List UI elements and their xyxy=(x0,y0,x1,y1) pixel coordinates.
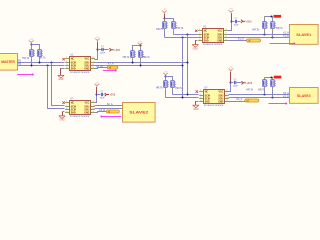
wire U2 VCC xyxy=(228,22,232,31)
resistor R4 xyxy=(245,99,259,102)
ground (U1) xyxy=(58,75,64,81)
svg-text:2: 2 xyxy=(66,105,67,107)
svg-text:GND: GND xyxy=(217,40,222,42)
wire Q1 source to U1 pin3 xyxy=(165,37,199,39)
svg-text:SOU: SOU xyxy=(218,95,223,97)
wire U1 pin4 out xyxy=(95,68,108,69)
svg-text:SHD: SHD xyxy=(205,101,210,103)
wire to C2 xyxy=(98,49,102,51)
wire U4 pin4 out xyxy=(229,101,247,103)
svg-text:PC4SV17XXXX: PC4SV17XXXX xyxy=(70,116,90,118)
svg-text:4: 4 xyxy=(200,100,201,102)
magenta line ch4 xyxy=(269,103,288,105)
opto-isolator U4 xyxy=(199,87,229,107)
svg-text:SOU: SOU xyxy=(84,65,89,67)
resistor R2 xyxy=(107,66,118,69)
svg-text:SHD: SHD xyxy=(71,112,76,114)
svg-text:8: 8 xyxy=(226,29,227,31)
svg-text:SOU: SOU xyxy=(217,34,222,36)
transistor Q5 xyxy=(29,50,35,57)
transistor Q1 xyxy=(162,22,168,29)
wire C3 to label xyxy=(104,94,105,96)
wire xyxy=(264,77,266,80)
svg-text:1: 1 xyxy=(66,57,67,59)
svg-text:HR,7k: HR,7k xyxy=(156,28,163,31)
svg-text:3: 3 xyxy=(199,36,200,38)
wire xyxy=(264,87,266,95)
svg-text:SLAVE1: SLAVE1 xyxy=(296,33,311,37)
svg-text:6: 6 xyxy=(226,36,227,38)
wire xyxy=(31,57,33,66)
wire U1 outB to bus xyxy=(95,65,183,67)
power stem C2 xyxy=(97,42,99,50)
junction xyxy=(187,94,189,96)
junction xyxy=(96,94,98,96)
transistor Q12 xyxy=(270,80,276,87)
svg-text:NC: NC xyxy=(71,102,75,104)
svg-text:1: 1 xyxy=(200,90,201,92)
wire U2 out A to SLAVE1 xyxy=(228,34,290,36)
svg-text:PC4SV17XXXX: PC4SV17XXXX xyxy=(203,44,223,46)
svg-text:GND: GND xyxy=(218,101,223,103)
hierarchical label +5V0 (ch1) xyxy=(241,20,252,24)
hierarchical sheet SLAVE3 xyxy=(290,88,319,104)
svg-text:+5V0: +5V0 xyxy=(110,94,116,97)
wire U2 out B to SLAVE1 xyxy=(228,37,290,39)
wire U2 gnd pin xyxy=(196,40,198,42)
power +5V (C3) xyxy=(94,82,99,87)
wire to C3 xyxy=(97,94,101,96)
transistor Q9 xyxy=(163,81,169,88)
ground (U3) xyxy=(59,116,65,122)
magenta line MASTER xyxy=(17,74,34,76)
junction xyxy=(272,37,274,39)
power +5V (over Q9) xyxy=(163,71,168,76)
svg-text:GND: GND xyxy=(193,47,199,50)
wire xyxy=(272,16,274,21)
svg-text:K3_B: K3_B xyxy=(283,97,289,99)
svg-text:SLAVE3: SLAVE3 xyxy=(297,94,311,98)
wire to C1 xyxy=(232,21,235,23)
wire xyxy=(272,87,274,98)
junction xyxy=(271,77,273,79)
wire xyxy=(140,46,142,51)
junction xyxy=(187,34,189,36)
transistor Q10 xyxy=(170,81,176,88)
no-connect U3 pin1 xyxy=(62,101,64,103)
svg-text:7: 7 xyxy=(226,33,227,35)
svg-text:SOU: SOU xyxy=(217,37,222,39)
svg-text:SCM: SCM xyxy=(205,98,210,100)
wire vertical to U3 pin2 xyxy=(52,63,65,106)
junction xyxy=(264,34,266,36)
wire xyxy=(132,58,134,62)
gnd stem U4 xyxy=(195,101,197,105)
svg-text:3: 3 xyxy=(66,108,67,110)
svg-text:4: 4 xyxy=(66,111,67,113)
wire U4 VCC xyxy=(229,83,231,92)
transistor Q6 xyxy=(37,50,43,57)
svg-text:4: 4 xyxy=(66,67,67,69)
no-connect U4 pin1 xyxy=(196,90,198,92)
svg-text:K3_A: K3_A xyxy=(283,92,289,95)
svg-text:K?_A: K?_A xyxy=(108,62,114,65)
svg-text:SCM: SCM xyxy=(71,106,76,108)
wire Q7/Q8 drain tie xyxy=(133,46,141,51)
svg-text:6: 6 xyxy=(93,64,94,66)
transistor Q3 xyxy=(262,22,268,29)
capacitor C2 xyxy=(100,46,106,54)
svg-text:SHD: SHD xyxy=(204,40,209,42)
svg-text:SOU: SOU xyxy=(84,106,89,108)
wire xyxy=(31,44,33,49)
wire Q10 source to U4 pin2 xyxy=(173,94,199,96)
wire U3 VCC xyxy=(95,95,97,103)
wire Q9 source to U4 pin3 xyxy=(166,97,199,99)
power stem C3 xyxy=(96,87,98,94)
wire U1 gnd pin xyxy=(61,68,65,70)
svg-text:SCM: SCM xyxy=(204,34,209,36)
junction xyxy=(230,82,232,84)
power +5V (C2) xyxy=(95,37,100,42)
svg-text:5: 5 xyxy=(93,67,94,69)
wire C1 to label xyxy=(238,21,241,23)
svg-text:2: 2 xyxy=(66,61,67,63)
svg-text:NC: NC xyxy=(71,58,75,60)
wire xyxy=(140,58,142,65)
svg-text:1: 1 xyxy=(199,29,200,31)
hierarchical label +5V0 (ch2) xyxy=(109,48,120,52)
svg-text:3: 3 xyxy=(66,64,67,66)
wire Q2 source to U1 pin2 xyxy=(174,34,199,36)
wire U1 VCC xyxy=(95,50,98,60)
transistor Q8 xyxy=(138,51,144,58)
svg-text:8: 8 xyxy=(93,101,94,103)
svg-text:SOU: SOU xyxy=(218,98,223,100)
hierarchical sheet MASTER xyxy=(0,54,18,71)
svg-text:5: 5 xyxy=(226,39,227,41)
svg-text:8: 8 xyxy=(227,90,228,92)
transistor Q2 xyxy=(171,22,177,29)
svg-text:2: 2 xyxy=(200,94,201,96)
junction xyxy=(132,62,134,64)
junction xyxy=(31,44,33,46)
svg-text:6: 6 xyxy=(227,97,228,99)
svg-text:PC4SV17XXXX: PC4SV17XXXX xyxy=(70,72,90,74)
svg-text:MASTER: MASTER xyxy=(1,60,15,64)
junction xyxy=(47,65,49,67)
svg-text:SCM: SCM xyxy=(205,95,210,97)
svg-text:GND: GND xyxy=(84,112,89,114)
wire U4 gnd pin xyxy=(196,101,199,103)
svg-text:K2_B: K2_B xyxy=(99,110,105,112)
power stem C4 xyxy=(230,72,232,83)
wire vertical to U3 pin3 xyxy=(48,66,65,109)
hierarchical label +5V0 (ch4) xyxy=(242,81,253,85)
junction xyxy=(140,65,142,67)
svg-text:HR,7k: HR,7k xyxy=(252,29,259,32)
transistor Q4 xyxy=(270,22,276,29)
svg-text:SLAVE2: SLAVE2 xyxy=(129,111,148,115)
svg-text:1: 1 xyxy=(66,101,67,103)
magenta line ch1 xyxy=(270,43,296,45)
svg-text:SCM: SCM xyxy=(71,62,76,64)
wire xyxy=(165,76,167,80)
junction xyxy=(39,62,41,64)
wire U1 outA to bus xyxy=(95,62,188,64)
svg-text:4: 4 xyxy=(199,39,200,41)
power stem C1 xyxy=(231,13,233,20)
wire xyxy=(264,29,266,35)
svg-text:10uF: 10uF xyxy=(100,52,106,54)
wire xyxy=(264,16,266,21)
svg-text:10uF: 10uF xyxy=(100,97,106,99)
power +5V (over Q1) xyxy=(162,9,167,14)
svg-text:SCM: SCM xyxy=(71,65,76,67)
wire vertical bus A xyxy=(187,35,189,95)
wire xyxy=(165,87,167,97)
opto-isolator U3 xyxy=(65,98,95,118)
svg-text:6: 6 xyxy=(93,108,94,110)
junction xyxy=(164,18,166,20)
svg-text:HR,7k: HR,7k xyxy=(246,88,253,91)
svg-text:10uF: 10uF xyxy=(233,85,239,87)
ground (U4) xyxy=(193,105,199,111)
power stem wire xyxy=(164,14,166,18)
svg-text:HR,7k: HR,7k xyxy=(22,57,29,60)
svg-text:VCC: VCC xyxy=(218,91,223,93)
junction xyxy=(187,62,189,64)
junction xyxy=(272,97,274,99)
svg-text:K2_A: K2_A xyxy=(107,103,113,106)
svg-text:GND: GND xyxy=(58,78,64,81)
wire xyxy=(272,77,274,80)
svg-text:7: 7 xyxy=(93,61,94,63)
power +5V (over Q5) xyxy=(29,39,34,44)
wire U2 pin4 out xyxy=(228,40,247,42)
power +5V (C1) xyxy=(229,9,234,14)
junction xyxy=(51,62,53,64)
gnd stem U1 xyxy=(60,68,62,75)
svg-text:VCC: VCC xyxy=(84,102,89,104)
wire Q9/Q10 drain tie xyxy=(166,77,173,81)
junction xyxy=(31,65,33,67)
capacitor C4 xyxy=(233,79,239,87)
svg-text:5: 5 xyxy=(227,100,228,102)
wire U3 gnd pin xyxy=(63,111,65,113)
wire MASTER out2 to U1 xyxy=(18,65,65,67)
svg-text:GND: GND xyxy=(193,108,199,111)
svg-text:GND: GND xyxy=(59,119,65,122)
wire Q3/Q4 top tie xyxy=(265,16,272,18)
wire U3 outA to SLAVE2 xyxy=(95,105,123,107)
magenta line ch2 xyxy=(103,70,117,72)
no-connect U1 pin1 xyxy=(62,58,64,60)
wire xyxy=(173,29,175,35)
wire xyxy=(164,18,166,21)
svg-text:K3_A: K3_A xyxy=(237,98,243,101)
resistor R1 xyxy=(247,39,261,42)
wire C4 to label xyxy=(237,82,242,84)
resistor R3 xyxy=(106,110,119,113)
wire U3 outB to SLAVE2 xyxy=(95,108,123,110)
svg-text:PC4SV17XXXX: PC4SV17XXXX xyxy=(204,105,224,107)
junction xyxy=(182,37,184,39)
transistor Q11 xyxy=(262,80,268,87)
wire Q5/Q6 drain tie xyxy=(32,45,40,50)
junction xyxy=(165,76,167,78)
junction xyxy=(97,49,99,51)
wire vertical bus B xyxy=(182,38,184,98)
svg-text:K1_A: K1_A xyxy=(238,38,244,41)
no-connect U2 pin1 xyxy=(195,30,197,32)
svg-text:K1_B: K1_B xyxy=(283,36,289,38)
svg-text:SHD: SHD xyxy=(71,68,76,70)
wire xyxy=(172,87,174,94)
net flag (red) ch4 xyxy=(274,76,282,79)
power +5V (over Q8) xyxy=(138,41,143,46)
capacitor C1 xyxy=(234,18,240,26)
svg-text:SOU: SOU xyxy=(84,109,89,111)
svg-text:3: 3 xyxy=(200,97,201,99)
opto-isolator U1 xyxy=(65,54,95,74)
svg-text:2: 2 xyxy=(199,33,200,35)
svg-text:NC: NC xyxy=(204,30,208,32)
wire MASTER out1 to U1 xyxy=(18,62,65,64)
junction xyxy=(182,97,184,99)
svg-text:7: 7 xyxy=(227,94,228,96)
svg-text:7: 7 xyxy=(93,105,94,107)
svg-text:+5V0: +5V0 xyxy=(246,82,252,85)
svg-text:VCC: VCC xyxy=(84,58,89,60)
junction xyxy=(231,21,233,23)
svg-text:K?_IN: K?_IN xyxy=(96,66,103,68)
opto-isolator U2 xyxy=(198,26,228,46)
wire C2 to label xyxy=(104,49,109,51)
wire to C4 xyxy=(231,82,234,84)
svg-text:HR,7k: HR,7k xyxy=(156,87,163,90)
svg-text:HR,7k: HR,7k xyxy=(143,56,150,59)
svg-text:8: 8 xyxy=(93,57,94,59)
svg-text:10uF: 10uF xyxy=(234,24,240,26)
wire Q11/Q12 top tie xyxy=(265,77,272,79)
hierarchical sheet SLAVE1 xyxy=(290,25,319,45)
gnd stem U3 xyxy=(62,112,64,116)
svg-text:NC: NC xyxy=(205,91,209,93)
svg-text:SCM: SCM xyxy=(71,109,76,111)
svg-text:HR,7k: HR,7k xyxy=(175,87,182,90)
hierarchical label +5V0 (ch3) xyxy=(105,93,116,97)
svg-text:5: 5 xyxy=(93,111,94,113)
junction xyxy=(182,65,184,67)
junction xyxy=(264,94,266,96)
svg-text:K1_A: K1_A xyxy=(283,31,289,34)
svg-text:HR,7k: HR,7k xyxy=(123,56,130,59)
junction xyxy=(140,45,142,47)
wire Q1/Q2 drain tie xyxy=(165,19,174,22)
svg-text:GND: GND xyxy=(84,68,89,70)
magenta line ch3 xyxy=(100,116,121,118)
svg-text:+5V0: +5V0 xyxy=(114,49,120,52)
wire U4 outB to SLAVE3 xyxy=(229,97,290,99)
transistor Q7 xyxy=(130,51,136,58)
wire xyxy=(272,29,274,38)
gnd stem U2 xyxy=(195,40,197,44)
capacitor C3 xyxy=(100,91,106,99)
wire xyxy=(39,57,41,63)
svg-text:HR,7k: HR,7k xyxy=(176,27,183,30)
net flag (red) ch1 xyxy=(274,15,282,18)
hierarchical sheet SLAVE2 xyxy=(123,103,156,123)
junction xyxy=(271,16,273,18)
power +5V (C4) xyxy=(228,67,233,72)
svg-text:+5V0: +5V0 xyxy=(246,20,252,23)
svg-text:HR,7k: HR,7k xyxy=(276,27,283,30)
wire U3 pin4 out xyxy=(95,112,107,113)
ground (U2) xyxy=(192,45,198,51)
wire xyxy=(164,29,166,38)
wire U4 outA to SLAVE3 xyxy=(229,94,290,96)
svg-text:SCM: SCM xyxy=(204,37,209,39)
svg-text:SOU: SOU xyxy=(84,62,89,64)
svg-text:VCC: VCC xyxy=(217,30,222,32)
